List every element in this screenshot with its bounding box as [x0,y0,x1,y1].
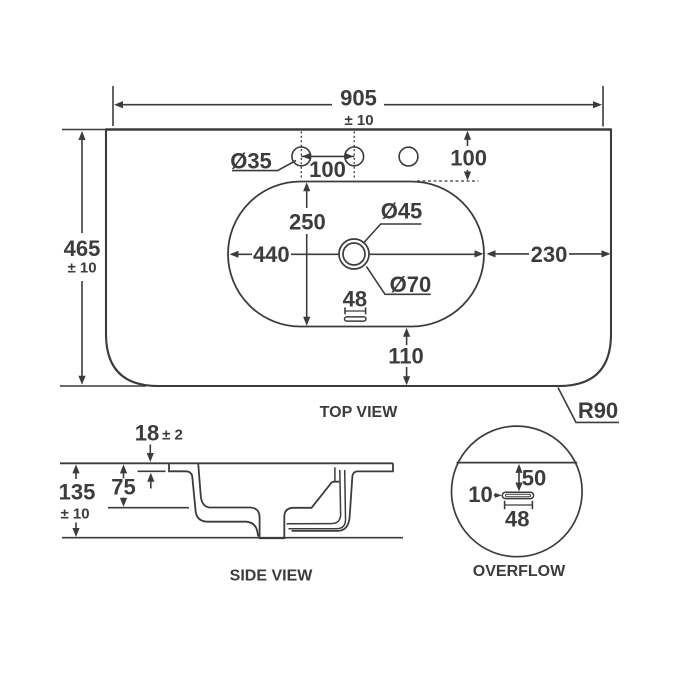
svg-text:75: 75 [111,475,135,500]
svg-text:100: 100 [309,157,346,182]
svg-text:± 2: ± 2 [162,427,183,444]
svg-text:48: 48 [343,286,367,311]
svg-text:465: 465 [64,236,101,261]
svg-text:905: 905 [340,86,377,111]
svg-text:48: 48 [505,507,529,532]
svg-text:SIDE VIEW: SIDE VIEW [230,568,314,585]
svg-text:50: 50 [522,466,546,491]
svg-text:18: 18 [135,421,159,446]
svg-text:250: 250 [289,210,326,235]
svg-text:110: 110 [388,344,424,369]
svg-text:Ø35: Ø35 [230,149,272,174]
svg-text:± 10: ± 10 [67,260,96,277]
svg-text:TOP VIEW: TOP VIEW [320,404,399,421]
svg-text:± 10: ± 10 [60,506,89,523]
svg-text:Ø70: Ø70 [390,272,432,297]
svg-text:135: 135 [59,480,96,505]
svg-text:230: 230 [531,242,568,267]
svg-text:± 10: ± 10 [344,112,373,129]
svg-text:100: 100 [450,146,487,171]
svg-text:10: 10 [468,482,492,507]
svg-text:Ø45: Ø45 [381,199,423,224]
svg-text:440: 440 [253,242,290,267]
svg-text:OVERFLOW: OVERFLOW [473,563,566,580]
svg-text:R90: R90 [578,398,618,423]
